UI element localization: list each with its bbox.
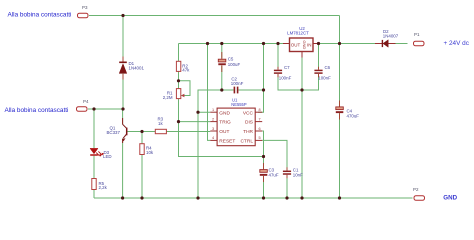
svg-text:5: 5 [259,136,261,140]
svg-text:100nF: 100nF [318,76,331,81]
junction node coil P4 / LED branch (94,109) [92,107,95,110]
pin 7 DIS [255,121,262,123]
wire D1 column [122,16,124,110]
svg-text:3: 3 [212,127,214,131]
wire Q1 base to R3 to OUT pin3 [128,131,211,133]
svg-text:BC337: BC337 [107,130,121,135]
wire P3 top rail [89,15,340,17]
svg-text:GND: GND [443,194,457,201]
trimmer R1 2,2M [163,89,185,100]
svg-text:C7: C7 [284,65,290,70]
svg-text:NE555P: NE555P [231,102,247,107]
svg-text:8: 8 [259,108,261,112]
capacitor C3 47uF [260,163,279,182]
wire VCC column x263.5 [258,44,264,113]
svg-text:THR: THR [243,129,253,135]
svg-text:2: 2 [212,117,214,121]
svg-text:OUT: OUT [219,129,229,135]
junction node ground rail / C3 (263.5,198) [262,196,265,199]
wire C2 right to VCC column [238,89,263,91]
capacitor C1 10nF [283,167,303,178]
op-amp / timer U1 NE555P [210,97,262,145]
pin 4 RESET [210,139,217,141]
resistor R3 1k [155,117,166,134]
svg-text:1: 1 [212,108,214,112]
junction node GND pin1 (198,112.2) [196,111,199,114]
wire C5 column [221,44,223,91]
junction node +24V rail / C6 top (318.5,43.5) [317,42,320,45]
svg-text:TRIG: TRIG [219,120,231,126]
svg-text:4: 4 [212,136,214,140]
junction node ground rail / R4 (142,198) [140,196,143,199]
svg-text:OUT: OUT [291,42,301,47]
wire vertical from top rail to 24V rail [339,16,341,44]
svg-text:1N4001: 1N4001 [129,66,145,71]
regulator U2 LM7812 [283,26,320,58]
capacitor C2 100nF [231,77,244,94]
junction node +12V rail / RESET column (207.5,43.5) [206,42,209,45]
capacitor C4 470uF [336,101,359,120]
junction node ground rail / C4 (339.5,198) [338,196,341,199]
transistor Q1 BC337 [107,118,127,143]
wire +24V rail (U2 IN side) [320,43,408,45]
svg-text:1N4007: 1N4007 [383,33,399,38]
wire U2 GND column [301,58,303,199]
junction node +24V at D1 top (123,15.5) [121,14,124,17]
junction node coil P4 / D1 anode / Q1 collector (123,109) [121,107,124,110]
pin IN [313,43,320,45]
svg-text:10nF: 10nF [293,173,303,178]
pin 1 GND [210,111,217,113]
junction node ground rail / U2 GND (302,198) [300,196,303,199]
LED D3 [90,148,112,159]
svg-text:47uF: 47uF [269,173,279,178]
junction node C7-C6 gnd link at U2 GND (302,90) [300,88,303,91]
svg-text:470uF: 470uF [347,114,360,119]
svg-text:47k: 47k [182,68,190,73]
svg-text:100nF: 100nF [231,81,244,86]
pin 8 VCC [255,111,262,113]
svg-text:CTRL: CTRL [240,139,253,145]
svg-text:Alla bobina contascatti: Alla bobina contascatti [5,107,69,114]
svg-text:2,2k: 2,2k [99,185,108,190]
pin OUT [283,43,290,45]
wire R4 column [141,132,143,199]
wire +12V rail (U2 OUT side) [179,43,284,45]
wire ground rail [94,197,413,199]
svg-text:100nF: 100nF [279,76,292,81]
wire TRIG pin2 [179,121,211,123]
svg-text:6: 6 [259,127,261,131]
wire R2/R1 column [179,44,264,157]
svg-text:P4: P4 [83,99,89,104]
wire C7 column [278,44,302,91]
wire P4 [88,108,123,110]
junction node +12V rail / C7 top (278,43.5) [276,42,279,45]
pin GND [301,52,303,58]
junction node ground rail / 555 GND column (198,198) [196,196,199,199]
wire R1 wiper loop [179,81,191,96]
resistor R2 47k [176,61,190,72]
svg-text:LM7812CT: LM7812CT [287,31,309,36]
connector P2 [413,187,425,200]
svg-text:Alla bobina contascatti: Alla bobina contascatti [8,11,72,18]
diode D2 1N4007 [375,29,399,47]
svg-text:2,2M: 2,2M [163,95,173,100]
wire THR to C3 column [262,131,263,198]
svg-text:P1: P1 [414,32,420,37]
svg-text:1k: 1k [158,121,163,126]
pin 3 OUT [210,130,217,132]
wire CTRL to C1 [262,140,287,198]
junction node C5 bottom on gnd link (221.8,90) [220,88,223,91]
junction node ground rail / C1 (287,198) [285,196,288,199]
svg-text:GND: GND [302,40,307,49]
svg-text:10k: 10k [146,150,154,155]
wire RESET column x207.5 [208,44,211,141]
svg-text:VCC: VCC [243,110,254,116]
junction node Q1 base / R4 top (142,131.5) [140,130,143,133]
junction node +24V rail / P3 riser / C4 top (339.5,43.5) [338,42,341,45]
junction node R2-R1 / wiper (178.5,80.8) [177,79,180,82]
svg-text:LED: LED [103,154,112,159]
svg-text:100uF: 100uF [228,62,241,67]
wire Q1 collector-emitter [122,109,124,198]
svg-text:P3: P3 [82,5,88,10]
wire C4 / P3 column x339.5 [339,44,341,199]
wire LED / R5 column [93,109,95,198]
junction node TRIG at R1 bottom (178.5,121.6) [177,120,180,123]
svg-text:+ 24V dc: + 24V dc [444,40,470,47]
pin 5 CTRL [255,139,262,141]
capacitor C7 100nF [274,65,292,81]
capacitor C5 100uF [218,52,240,72]
resistor R4 10k [140,144,154,155]
connector P4 [77,99,90,111]
wire C6 column [302,44,319,91]
junction node +12V rail / C5 top (221.8,43.5) [220,42,223,45]
svg-text:P2: P2 [413,187,419,192]
svg-text:DIS: DIS [245,120,253,126]
junction node ground rail / Q1 emitter (122.6,198) [121,196,124,199]
wire GND column x198 [198,90,234,198]
diode D1 1N4001 [119,57,144,80]
pin 2 TRIG [210,121,217,123]
pin 6 THR [255,130,262,132]
resistor R5 2.2k [92,179,108,191]
junction node +12V rail / VCC column (263.5,43.5) [262,42,265,45]
svg-text:GND: GND [219,110,230,116]
svg-text:RESET: RESET [219,139,235,145]
svg-text:C6: C6 [325,65,331,70]
junction node THR-TRIG-C3 (263.5,156.5) [262,155,265,158]
junction node VCC / C2 right (263.5,90) [262,88,265,91]
connector P3 [78,5,89,18]
connector P1 [414,32,425,46]
svg-text:7: 7 [259,117,261,121]
capacitor C6 100nF [314,65,331,81]
